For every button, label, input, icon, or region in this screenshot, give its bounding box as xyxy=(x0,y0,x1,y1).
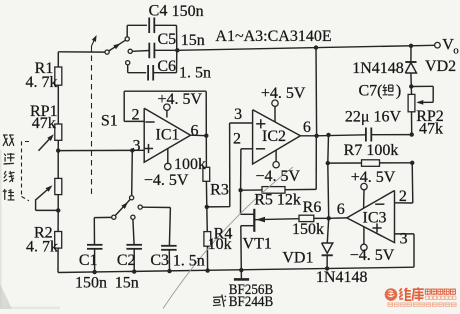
svg-text:o: o xyxy=(453,45,459,57)
svg-text:R7 100k: R7 100k xyxy=(344,142,399,159)
svg-text:47k: 47k xyxy=(419,121,443,138)
svg-text:1N4148: 1N4148 xyxy=(352,60,404,77)
svg-text:15n: 15n xyxy=(181,32,205,49)
svg-text:3: 3 xyxy=(234,106,242,123)
svg-text:A1~A3:CA3140E: A1~A3:CA3140E xyxy=(215,28,331,45)
svg-text:C4: C4 xyxy=(149,3,168,20)
svg-text:2: 2 xyxy=(132,107,140,124)
svg-text:R5 12k: R5 12k xyxy=(254,191,301,208)
svg-text:VD2: VD2 xyxy=(425,58,456,75)
svg-text:6: 6 xyxy=(303,119,311,136)
svg-text:IC2: IC2 xyxy=(262,128,286,145)
svg-text:VT1: VT1 xyxy=(243,236,272,253)
svg-text:3: 3 xyxy=(400,230,408,247)
svg-text:6: 6 xyxy=(191,123,199,140)
svg-text:22μ 16V: 22μ 16V xyxy=(345,109,402,126)
svg-text:C7(: C7( xyxy=(359,83,383,100)
svg-text:BF244B: BF244B xyxy=(229,294,274,309)
svg-text:VD1: VD1 xyxy=(282,250,313,267)
svg-text:C2: C2 xyxy=(117,252,136,269)
svg-text:R6: R6 xyxy=(303,199,322,216)
svg-text:−4. 5V: −4. 5V xyxy=(256,168,301,185)
svg-text:2: 2 xyxy=(399,188,407,205)
svg-text:C5: C5 xyxy=(157,31,176,48)
svg-text:6: 6 xyxy=(337,201,345,218)
svg-text:4. 7k: 4. 7k xyxy=(26,74,58,91)
svg-text:IC1: IC1 xyxy=(156,127,180,144)
svg-text:4. 7k: 4. 7k xyxy=(26,238,58,255)
svg-text:−4. 5V: −4. 5V xyxy=(350,247,395,264)
svg-text:+4. 5V: +4. 5V xyxy=(261,85,306,102)
svg-text:+4. 5V: +4. 5V xyxy=(158,91,203,108)
svg-text:): ) xyxy=(396,83,401,100)
svg-text:150n: 150n xyxy=(75,274,107,291)
svg-text:10k: 10k xyxy=(208,236,232,253)
svg-text:150k: 150k xyxy=(292,221,324,238)
svg-text:−4. 5V: −4. 5V xyxy=(144,172,189,189)
svg-text:C1: C1 xyxy=(79,252,98,269)
svg-text:+4. 5V: +4. 5V xyxy=(351,169,396,186)
svg-text:47k: 47k xyxy=(32,115,56,132)
svg-text:15n: 15n xyxy=(115,274,139,291)
svg-text:3: 3 xyxy=(133,138,141,155)
svg-text:1. 5n: 1. 5n xyxy=(179,65,211,82)
svg-text:100k: 100k xyxy=(174,156,206,173)
svg-text:S1: S1 xyxy=(101,113,118,130)
svg-text:1. 5n: 1. 5n xyxy=(173,252,205,269)
svg-text:150n: 150n xyxy=(172,3,204,20)
svg-text:C6: C6 xyxy=(157,58,176,75)
svg-text:R3: R3 xyxy=(210,181,229,198)
svg-text:IC3: IC3 xyxy=(363,210,387,227)
svg-text:C3: C3 xyxy=(150,252,169,269)
svg-text:2: 2 xyxy=(233,131,241,148)
svg-text:1N4148: 1N4148 xyxy=(316,269,368,286)
